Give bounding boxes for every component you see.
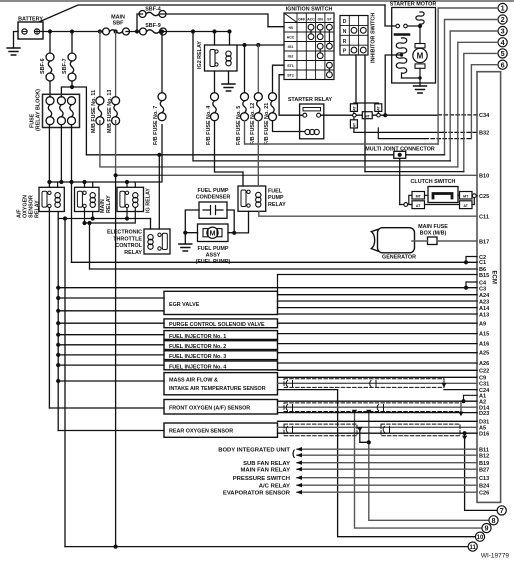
connector AT (clutch left): [412, 201, 425, 209]
M/B fuse No.11: [99, 32, 101, 97]
wire F/B21 to starter relay coil: [273, 121, 305, 132]
purge control solenoid valve box: [164, 319, 278, 328]
fuel injector No.4 box: [164, 361, 278, 370]
wire D31 line: [278, 420, 478, 422]
node open circle clutch: [404, 203, 408, 207]
svg-text:B12: B12: [479, 454, 489, 460]
shield drain arrow (front O2 right): [458, 412, 463, 417]
svg-text:ON: ON: [318, 17, 324, 21]
off-page circle 9: [482, 524, 491, 533]
svg-text:FUEL PUMP: FUEL PUMP: [197, 188, 228, 194]
svg-text:WI-19779: WI-19779: [481, 553, 510, 560]
svg-text:ST2: ST2: [287, 74, 294, 78]
svg-text:6: 6: [501, 60, 505, 69]
connector MT (starter): [362, 112, 372, 119]
svg-text:11: 11: [470, 545, 477, 551]
body integrated unit wires: [297, 449, 477, 455]
svg-text:SUB FAN RELAY: SUB FAN RELAY: [243, 461, 290, 467]
svg-text:RELAY: RELAY: [124, 250, 142, 256]
svg-text:(: (: [292, 448, 296, 459]
wire relay row bottom line a: [58, 212, 150, 219]
wire rear O2 left wire from rail R2: [58, 430, 164, 432]
svg-text:PURGE CONTROL SOLENOID VALVE: PURGE CONTROL SOLENOID VALVE: [169, 322, 265, 328]
wire C1 riser: [71, 125, 73, 263]
svg-text:A15: A15: [479, 331, 489, 337]
shield dashed box (front O2): [284, 403, 461, 412]
svg-text:4: 4: [501, 38, 505, 47]
frame top border: [0, 0, 514, 2]
shield dashed box (rear O2 left): [284, 424, 357, 436]
svg-text:FUEL INJECTOR No. 3: FUEL INJECTOR No. 3: [169, 354, 226, 360]
svg-text:5: 5: [501, 49, 505, 58]
evaporator sensor wire: [297, 491, 477, 493]
shield drain arrow (rear O2): [357, 427, 362, 432]
wire EGR right wires: [278, 295, 478, 314]
wire relay row bottom line b: [85, 208, 136, 223]
svg-text:D23: D23: [479, 411, 489, 417]
F/B fuse No.21: [269, 93, 277, 121]
wire fan line 2 from SBF-7 branch through MJC: [86, 154, 444, 156]
svg-text:MT: MT: [463, 195, 469, 199]
wire drain vertical front O2 to 9: [355, 413, 482, 528]
svg-text:C3: C3: [479, 286, 486, 292]
ground (IG2 relay): [222, 84, 235, 91]
ground (fuel pump): [179, 244, 192, 251]
svg-text:F/B FUSE No. 5: F/B FUSE No. 5: [236, 106, 242, 145]
svg-text:CONDENSER: CONDENSER: [196, 194, 231, 200]
wire starter motor ground lead: [419, 83, 421, 86]
SBF-6 vertical fuse: [49, 32, 51, 54]
generator: [371, 228, 416, 261]
svg-text:FUEL: FUEL: [268, 188, 283, 194]
svg-text:D16: D16: [479, 431, 489, 437]
wire ETC coil feed from relay bottom line: [150, 219, 152, 230]
wire C2 hook: [466, 257, 477, 263]
svg-text:P: P: [343, 49, 347, 55]
rear oxygen sensor box: [164, 423, 278, 437]
wire IG2 switch out to F/B fuse No.4: [214, 71, 216, 93]
wire C1 long line: [72, 261, 478, 263]
wire A2 line: [278, 400, 478, 402]
fuse block fuse 2: [57, 97, 65, 125]
wire to circle 6: [471, 65, 498, 139]
wire SBF-7 junction bus: [61, 81, 86, 155]
EGR valve box: [164, 291, 278, 314]
off-page circle 8: [489, 516, 498, 525]
wire bus after SBF-9: [126, 31, 230, 33]
svg-text:MASS AIR FLOW &: MASS AIR FLOW &: [169, 377, 218, 383]
off-page circle 7: [497, 506, 506, 515]
wire EGR left wires: [58, 298, 164, 311]
wire 7 riser: [465, 433, 497, 510]
connector MT (clutch left): [412, 192, 425, 200]
svg-text:M/B FUSE No. 13: M/B FUSE No. 13: [107, 90, 113, 133]
relay IG relay: [117, 187, 152, 213]
svg-text:C22: C22: [479, 368, 489, 374]
svg-text:AT: AT: [352, 105, 356, 110]
svg-text:RELAY: RELAY: [268, 202, 286, 208]
off-page circle 4: [498, 38, 507, 47]
svg-text:F/B FUSE No. 21: F/B FUSE No. 21: [264, 103, 270, 145]
wire to circle 4: [458, 42, 498, 167]
connector AT upper-right: [375, 104, 382, 112]
wire C3 long line: [58, 287, 477, 289]
svg-text:ST1: ST1: [287, 64, 294, 68]
svg-text:B27: B27: [479, 467, 489, 473]
svg-text:A24: A24: [479, 293, 490, 299]
svg-text:STARTER RELAY: STARTER RELAY: [288, 97, 333, 103]
connector AT lower (B32): [350, 120, 357, 128]
svg-text:MAIN FAN RELAY: MAIN FAN RELAY: [240, 467, 290, 473]
wire front O2 left wire from rail R1: [49, 407, 164, 409]
off-page circle 11: [468, 542, 477, 551]
svg-text:SBF-6: SBF-6: [40, 58, 46, 74]
shield clamp mark (rear O2 mid): [383, 426, 389, 432]
wire injector2 wires: [58, 344, 477, 345]
battery: [18, 17, 43, 40]
svg-text:CONTROL: CONTROL: [115, 243, 142, 249]
svg-text:SBF: SBF: [113, 21, 124, 27]
wire injector1 wires: [58, 334, 477, 335]
wire C22 line: [278, 369, 478, 371]
shield clamp mark (front O2 mid): [377, 405, 383, 411]
wire purge wires: [58, 322, 477, 324]
starter motor: [390, 2, 437, 84]
svg-text:B15: B15: [479, 273, 489, 279]
svg-text:3: 3: [501, 27, 505, 36]
svg-text:EVAPORATOR SENSOR: EVAPORATOR SENSOR: [223, 490, 291, 496]
wire B6 riser: [89, 223, 91, 269]
shield clamp mark (MAF mid): [370, 381, 376, 387]
wire FP relay coil to C11: [259, 211, 477, 216]
node ST junction: [383, 113, 387, 117]
off-page circle 3: [498, 26, 507, 35]
F/B fuse No.4: [211, 93, 219, 121]
svg-text:D: D: [343, 19, 347, 25]
wire ETC switch feed from fan line 2: [158, 155, 160, 229]
multi joint connector: [365, 146, 435, 158]
svg-text:ST: ST: [327, 17, 332, 21]
svg-text:+B: +B: [288, 26, 293, 30]
wire D23 line: [278, 412, 478, 414]
svg-text:C11: C11: [479, 214, 489, 220]
svg-text:AT: AT: [377, 105, 381, 110]
svg-text:F/B FUSE No. 12: F/B FUSE No. 12: [250, 103, 256, 145]
wire IG relay switch drop: [126, 208, 128, 219]
svg-text:IG2 RELAY: IG2 RELAY: [197, 41, 203, 69]
fuel pump assy: [196, 224, 231, 265]
shield dashed box (rear O2 right): [381, 424, 460, 436]
svg-text:EGR VALVE: EGR VALVE: [169, 302, 200, 308]
wire to 11 bottom: [65, 546, 467, 548]
svg-text:PRESSURE SWITCH: PRESSURE SWITCH: [233, 476, 290, 482]
wire C9 line: [278, 376, 478, 378]
wire B10 from M/B fuse No.13: [116, 121, 477, 176]
node open circle ST b: [377, 113, 381, 117]
svg-text:C1: C1: [479, 260, 486, 266]
svg-text:ACC: ACC: [287, 36, 295, 40]
wire to circle 5: [464, 53, 498, 171]
main fan relay wire: [297, 468, 477, 470]
svg-text:A1: A1: [479, 393, 486, 399]
wire F/B fuse No.12 to FP relay coil: [257, 121, 259, 186]
svg-text:ASSY: ASSY: [206, 253, 221, 259]
sub fan relay wire: [297, 462, 477, 464]
wire starter relay out / ST line: [321, 114, 438, 116]
wire rail R1 from A/F relay switch: [48, 208, 50, 408]
svg-text:C26: C26: [479, 490, 489, 496]
bus junction dots: [48, 29, 52, 33]
svg-text:MAIN FUSE: MAIN FUSE: [418, 224, 448, 230]
fuel injector No.1 box: [164, 331, 278, 340]
wire bus into starter motor: [385, 5, 396, 26]
arrow B12: [296, 453, 302, 457]
F/B fuse No.7: [161, 32, 163, 93]
wire B32 line: [354, 128, 443, 132]
wire IG1 feed line: [237, 44, 284, 46]
connector MT (clutch right): [460, 192, 473, 200]
svg-text:C34: C34: [479, 113, 490, 119]
inhibitor switch: [340, 13, 377, 63]
off-page circle 10: [475, 532, 484, 541]
main fuse box (M/B): [418, 224, 448, 245]
svg-text:SBF-7: SBF-7: [62, 58, 68, 74]
svg-text:C9: C9: [479, 375, 486, 381]
wire rail R2 from A/F coil: [57, 219, 59, 431]
wire D14 shielded line: [278, 406, 478, 408]
svg-text:BODY INTEGRATED UNIT: BODY INTEGRATED UNIT: [218, 447, 290, 453]
fuel injector No.3 box: [164, 351, 278, 360]
svg-text:OFF: OFF: [298, 17, 306, 21]
arrow B11: [296, 447, 302, 451]
a/c relay wire: [297, 484, 477, 486]
svg-text:CLUTCH SWITCH: CLUTCH SWITCH: [411, 179, 456, 185]
svg-text:A26: A26: [479, 361, 489, 367]
svg-text:STARTER MOTOR: STARTER MOTOR: [390, 2, 437, 8]
wire MAF left wire: [58, 380, 164, 382]
shield clamp mark (front O2): [286, 405, 292, 411]
shield clamp mark (rear O2): [286, 426, 292, 432]
off-page circle 5: [498, 49, 507, 58]
wire rear O2 drain to junction: [360, 430, 369, 442]
wire D16 line: [278, 432, 478, 434]
SBF-4 fuse branch: [137, 14, 268, 32]
F/B fuse No.5: [244, 45, 246, 93]
SBF-9 fuse on bus: [140, 28, 167, 35]
wire fan line 3 from bus: [193, 32, 450, 161]
wire clutch MT path: [400, 195, 460, 204]
starter relay: [288, 97, 333, 139]
wire AT stubs to ST line: [354, 111, 378, 119]
node open circle ST a: [353, 113, 357, 117]
main SBF fuse: [103, 28, 130, 35]
arrow B19: [296, 461, 302, 465]
svg-text:A14: A14: [479, 306, 490, 312]
svg-text:F/B FUSE No. 4: F/B FUSE No. 4: [206, 106, 212, 145]
wire B15 stub: [278, 275, 478, 292]
svg-text:A16: A16: [479, 341, 489, 347]
svg-text:FRONT OXYGEN (A/F) SENSOR: FRONT OXYGEN (A/F) SENSOR: [169, 405, 250, 411]
svg-text:A/C RELAY: A/C RELAY: [259, 483, 290, 489]
wire: battery diagonal to top bus: [40, 5, 385, 22]
wire SBF-6 to fuse block: [49, 81, 51, 97]
svg-text:RELAY: RELAY: [35, 200, 41, 218]
svg-text:B10: B10: [479, 174, 489, 180]
ECM connector box: [477, 72, 501, 503]
wire AT dashed line to 6: [378, 128, 425, 139]
fuse (relay block) box: [43, 94, 80, 127]
mass air flow sensor box: [164, 373, 278, 395]
svg-text:B17: B17: [479, 239, 489, 245]
svg-text:A23: A23: [479, 299, 489, 305]
svg-text:2: 2: [501, 15, 505, 24]
svg-text:C13: C13: [479, 476, 489, 482]
svg-text:IGNITION SWITCH: IGNITION SWITCH: [286, 7, 333, 13]
wire IG2 coil to ground: [228, 71, 230, 84]
fuel pump condenser: [196, 188, 231, 219]
electronic throttle control relay: [107, 229, 170, 256]
battery ground wire: [14, 32, 19, 49]
svg-text:INHIBITOR SWITCH: INHIBITOR SWITCH: [371, 13, 377, 63]
relay A/F oxygen sensor relay: [17, 187, 65, 218]
wire fan line 4 from M/B fuse No.11: [100, 121, 458, 167]
node D16 to 7: [463, 431, 467, 435]
svg-text:AT: AT: [416, 204, 421, 208]
wire injector4 wires: [58, 363, 477, 365]
shield drain arrow (front O2 b): [352, 410, 357, 415]
wire rail R3 to 11: [64, 219, 66, 547]
svg-text:C25: C25: [479, 194, 489, 200]
svg-text:R: R: [343, 39, 347, 45]
off-page circle 2: [498, 15, 507, 24]
svg-text:9: 9: [485, 524, 489, 533]
wire B6 long line: [90, 268, 478, 270]
wire C34 dashed to ECM: [438, 114, 477, 116]
svg-text:M: M: [417, 52, 424, 61]
svg-text:FUEL INJECTOR No. 4: FUEL INJECTOR No. 4: [169, 364, 226, 370]
shield dashed box (MAF): [284, 379, 444, 388]
svg-text:N: N: [343, 29, 347, 35]
svg-text:PUMP: PUMP: [268, 195, 284, 201]
wire C31 shielded line: [278, 382, 478, 384]
svg-text:F/B FUSE No. 7: F/B FUSE No. 7: [153, 106, 159, 145]
svg-text:M/B FUSE No. 11: M/B FUSE No. 11: [91, 90, 97, 133]
wire generator to B17: [412, 240, 477, 242]
svg-text:AT: AT: [463, 204, 468, 208]
shield drain arrow (MAF): [441, 383, 446, 388]
wire inhibitor outputs: [356, 55, 365, 172]
arrow C13: [296, 476, 302, 480]
svg-text:(RELAY BLOCK): (RELAY BLOCK): [36, 89, 42, 131]
node open circle C25: [472, 194, 476, 198]
shield drain arrow (on 7 riser): [462, 436, 467, 441]
wire ST1 from ignition to F/B 21: [273, 65, 285, 93]
arrow C26: [296, 490, 302, 494]
svg-text:IG RELAY: IG RELAY: [146, 188, 152, 213]
wire fan line 5 from inhibitor: [365, 171, 464, 173]
svg-text:REAR OXYGEN SENSOR: REAR OXYGEN SENSOR: [169, 429, 233, 435]
svg-text:SBF-9: SBF-9: [145, 23, 161, 29]
svg-text:THROTTLE: THROTTLE: [113, 236, 142, 242]
connector AT upper-left: [350, 104, 357, 112]
IG2 relay: [197, 41, 237, 71]
wire ST2 from ignition to starter relay contact: [279, 75, 303, 116]
clutch switch: [411, 179, 458, 203]
relay main relay: [75, 187, 113, 213]
svg-text:1: 1: [501, 4, 505, 13]
shield clamp mark (MAF): [286, 381, 292, 387]
svg-text:A13: A13: [479, 312, 489, 318]
svg-text:C31: C31: [479, 381, 489, 387]
shield drain arrow (front O2 a): [366, 410, 371, 415]
svg-text:IG2: IG2: [288, 55, 294, 59]
wire condenser+pump left to ground: [185, 210, 199, 244]
pressure switch wire: [297, 477, 477, 479]
svg-text:A9: A9: [479, 321, 486, 327]
svg-text:FUEL PUMP: FUEL PUMP: [197, 246, 228, 252]
wire AT tops line: [354, 102, 378, 105]
svg-text:FUEL INJECTOR No. 1: FUEL INJECTOR No. 1: [169, 334, 226, 340]
svg-text:INTAKE AIR TEMPERATURE SENSOR: INTAKE AIR TEMPERATURE SENSOR: [169, 386, 266, 392]
wire to circle 2: [445, 20, 499, 155]
svg-text:MT: MT: [416, 195, 422, 199]
wire C24 line: [278, 389, 478, 391]
svg-text:10: 10: [477, 535, 484, 541]
arrow B24: [296, 483, 302, 487]
wire MJC down to clutch branch: [399, 158, 401, 204]
svg-text:SBF-4: SBF-4: [145, 7, 161, 13]
wire: main bus from battery: [40, 31, 103, 33]
svg-text:B19: B19: [479, 461, 489, 467]
svg-text:ACC: ACC: [307, 17, 315, 21]
ignition switch table: [284, 7, 334, 80]
fuel injector No.2 box: [164, 341, 278, 350]
wire bus to IG2 relay contacts: [215, 32, 230, 46]
wire clutch to ECM C25: [472, 196, 477, 205]
wire M/B13 continues to 11: [115, 175, 117, 546]
node B10 junction: [114, 173, 118, 177]
F/B fuse No.12: [257, 45, 259, 93]
fuel pump relay: [238, 186, 286, 211]
svg-text:IG1: IG1: [288, 45, 294, 49]
fuse block fuse 3: [68, 97, 76, 125]
svg-text:7: 7: [500, 506, 504, 515]
off-page circle 1: [498, 3, 507, 12]
relay feed stubs: [58, 182, 136, 187]
wire drain vertical front O2 to 8: [369, 413, 488, 520]
svg-text:FUEL INJECTOR No. 2: FUEL INJECTOR No. 2: [169, 344, 226, 350]
svg-text:GENERATOR: GENERATOR: [382, 255, 416, 261]
wire C4 hook: [466, 282, 477, 288]
svg-text:A25: A25: [479, 350, 489, 356]
svg-text:AT: AT: [352, 122, 356, 127]
wire fan line 1 from F/B fuse No.5: [245, 121, 439, 144]
M/B fuse No.13: [115, 32, 117, 97]
fuse block fuse 1: [46, 97, 54, 125]
wire injector3 wires: [58, 353, 477, 355]
front oxygen sensor box: [164, 400, 278, 415]
wire F/B fuse No.4 to FP relay contact: [215, 121, 244, 186]
SBF-7 vertical fuse: [71, 32, 73, 54]
svg-text:ECM: ECM: [491, 271, 497, 284]
wire A1 hook: [464, 395, 478, 401]
ground (battery): [7, 48, 20, 55]
wire A5 line: [278, 426, 478, 428]
connector AT (clutch right): [460, 201, 473, 209]
off-page circle 6: [498, 60, 507, 69]
svg-text:RELAY: RELAY: [106, 195, 112, 213]
ECM pin labels: [479, 113, 490, 496]
